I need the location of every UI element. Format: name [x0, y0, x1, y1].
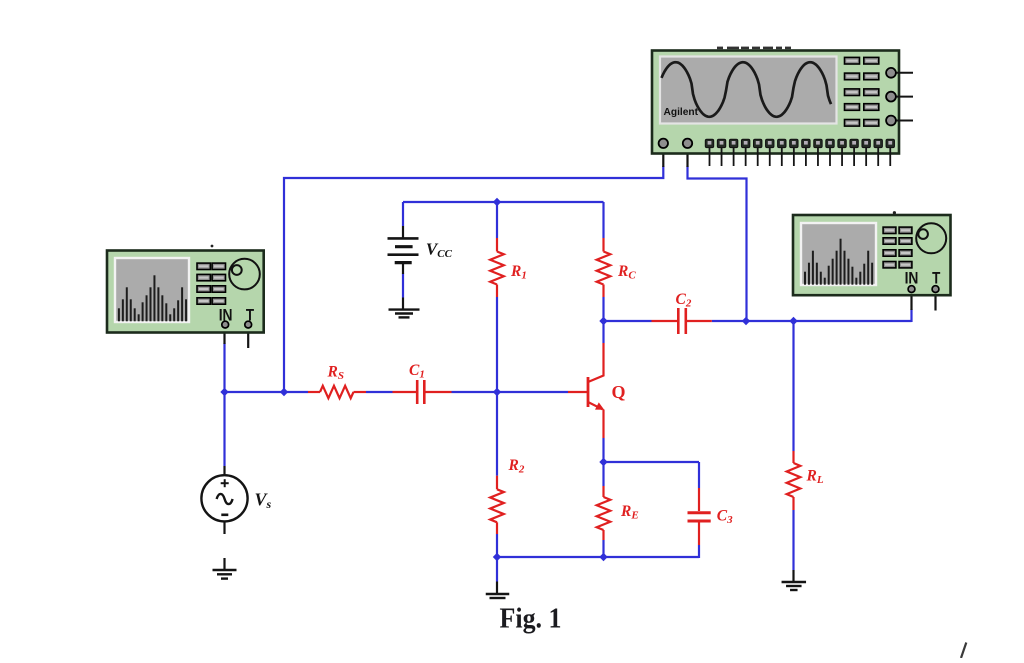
svg-text:T: T [932, 270, 940, 288]
svg-text:Q: Q [612, 382, 626, 402]
svg-text:Agilent: Agilent [664, 106, 699, 118]
svg-text:Fig. 1: Fig. 1 [500, 603, 562, 635]
